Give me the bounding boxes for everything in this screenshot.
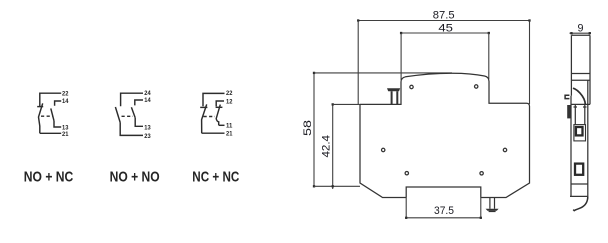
contact NC moving blade xyxy=(39,103,43,133)
ledge line xyxy=(571,103,590,105)
svg-text:9: 9 xyxy=(578,23,584,35)
hole low right xyxy=(480,172,483,175)
svg-text:11: 11 xyxy=(226,123,233,130)
contact NC fixed T-bar xyxy=(37,106,43,108)
window 2 thick square xyxy=(575,164,583,175)
svg-text:NO + NO: NO + NO xyxy=(110,169,160,186)
tick left 37.5 xyxy=(405,217,407,219)
svg-text:42.4: 42.4 xyxy=(321,135,333,158)
extension line 87.5 right xyxy=(529,21,531,105)
contact NC 22 top lead wire xyxy=(203,93,225,106)
contact NC 22-21 top lead wire xyxy=(40,93,61,106)
body outline xyxy=(360,73,530,197)
bottom protrusion rect with 37.5 xyxy=(406,187,481,198)
band line 1 xyxy=(571,73,590,75)
svg-text:58: 58 xyxy=(302,120,314,136)
contact NC 12-11 fixed T-bar xyxy=(216,106,223,108)
svg-text:14: 14 xyxy=(62,98,69,105)
dimension line 87.5 xyxy=(358,20,529,22)
svg-text:45: 45 xyxy=(438,23,453,35)
extension line 58 top xyxy=(314,72,452,74)
window 1 inner thick square xyxy=(576,127,583,135)
mechanical link dashes xyxy=(41,115,53,117)
svg-text:22: 22 xyxy=(226,90,233,97)
body outline left lower xyxy=(360,104,406,197)
left edge lower xyxy=(570,96,572,197)
svg-text:12: 12 xyxy=(226,98,233,105)
mechanical link dashes xyxy=(122,115,134,117)
tick right 45 xyxy=(488,32,490,34)
contact NC 22-21 fixed T-bar xyxy=(200,106,207,108)
contact NO moving blade xyxy=(51,108,54,120)
extension line 45 left xyxy=(400,33,402,80)
retaining hook curve xyxy=(573,88,585,104)
dimension line 45 xyxy=(401,32,489,34)
inner vertical left xyxy=(574,104,576,124)
tick bottom 42.4 xyxy=(332,185,334,187)
tick right 87.5 xyxy=(528,19,530,21)
hole mid left xyxy=(382,148,385,151)
hole low left xyxy=(405,172,408,175)
contact NO 24-23 moving blade xyxy=(115,107,120,123)
svg-text:21: 21 xyxy=(226,131,233,138)
contact NC 22-21 moving blade xyxy=(202,104,207,133)
dark clip bar xyxy=(567,105,571,118)
contact NC 12-11 moving blade xyxy=(216,105,220,126)
contact NC bottom lead to 11 xyxy=(219,124,225,126)
divider line xyxy=(571,183,588,185)
tick left 45 xyxy=(400,32,402,34)
svg-text:23: 23 xyxy=(144,133,151,140)
hole top right xyxy=(475,85,478,88)
tick bottom 58 xyxy=(313,185,315,187)
dimension line 58 xyxy=(313,73,315,186)
band line 2 xyxy=(571,79,590,81)
tick right 37.5 xyxy=(480,217,482,219)
tick left 87.5 xyxy=(357,19,359,21)
svg-text:NO + NC: NO + NC xyxy=(24,169,74,186)
hole top left xyxy=(410,85,413,88)
contact NO bottom lead to 23 xyxy=(120,123,143,136)
hole mid right xyxy=(503,148,506,151)
svg-text:14: 14 xyxy=(144,97,151,104)
svg-text:13: 13 xyxy=(144,124,151,131)
tick marks inner xyxy=(574,106,587,108)
tick top 42.4 xyxy=(332,103,334,105)
contact NO 14 top lead xyxy=(55,101,62,106)
tick right 9 xyxy=(589,32,591,34)
svg-text:21: 21 xyxy=(62,131,69,138)
contact NO 14 top lead xyxy=(135,100,143,105)
extension line 42.4 top / body ledge xyxy=(333,103,360,105)
svg-text:24: 24 xyxy=(144,90,151,97)
bottom clip hook xyxy=(573,196,588,210)
extension line 45 right xyxy=(488,33,490,79)
contact NO bottom lead to 13 xyxy=(54,121,61,127)
inner vertical right xyxy=(584,104,586,124)
contact NC 12 top lead xyxy=(216,101,224,106)
svg-text:87.5: 87.5 xyxy=(433,10,455,22)
terminal clamp top left xyxy=(387,88,400,91)
extension line 58 bottom xyxy=(314,185,360,187)
left tab bracket xyxy=(565,95,569,98)
tick top 58 xyxy=(313,72,315,74)
DIN clip pin bottom right xyxy=(490,198,495,209)
bottom edge xyxy=(570,195,588,197)
contact NO 14-13 moving blade xyxy=(131,107,135,118)
extension line 87.5 left xyxy=(357,21,359,105)
mechanical link dashes xyxy=(204,116,216,118)
side body top section xyxy=(571,35,590,104)
window 1 outer xyxy=(574,125,586,141)
dimension line 42.4 xyxy=(332,104,334,189)
contact NO bottom lead to 13 xyxy=(135,118,143,127)
svg-text:22: 22 xyxy=(62,91,69,98)
svg-text:37.5: 37.5 xyxy=(434,205,454,217)
contact NO 24 top lead wire xyxy=(121,93,143,106)
dimension line 9 xyxy=(570,32,592,34)
svg-text:NC + NC: NC + NC xyxy=(192,169,239,186)
contact NC bottom lead to 21 xyxy=(202,132,225,134)
contact NC bottom lead wire to 21 xyxy=(40,132,61,134)
right inner edge xyxy=(587,80,589,196)
tick left 9 xyxy=(570,32,572,34)
